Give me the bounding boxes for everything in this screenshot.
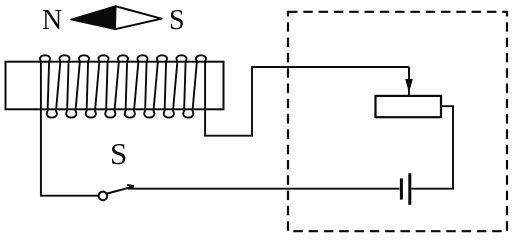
svg-text:S: S: [110, 136, 127, 171]
switch pivot circle: [99, 192, 108, 201]
core rectangle (solenoid core): [6, 62, 224, 110]
wire battery to rheostat right side: [411, 106, 453, 189]
rheostat slider arrowhead: [405, 79, 413, 93]
switch blade end tick: [127, 185, 134, 187]
compass needle (left half filled): [71, 6, 116, 29]
wire bottom (switch to battery): [128, 188, 400, 190]
rheostat body R: [376, 96, 442, 117]
svg-text:S: S: [169, 5, 185, 36]
coil winding with left terminal down and right terminal to top wire: [40, 55, 409, 195]
battery negative plate (short): [400, 178, 403, 199]
rheostat slider arrow shaft: [408, 67, 410, 96]
compass needle (right half outline): [115, 6, 162, 29]
wire bottom left (coil terminal to switch): [40, 195, 98, 197]
svg-text:N: N: [42, 5, 62, 36]
battery positive plate (long): [408, 173, 411, 205]
dashed enclosure box: [288, 12, 507, 231]
switch blade: [107, 186, 134, 193]
